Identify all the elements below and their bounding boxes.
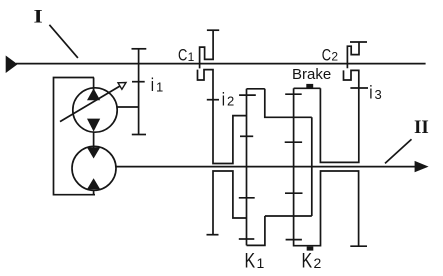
pump-motor connector: [93, 132, 95, 148]
output arrowhead: [415, 161, 429, 172]
motor M circle: [72, 146, 116, 190]
lower-left bracket cap: [207, 234, 219, 236]
svg-text:K: K: [245, 248, 256, 272]
motor bottom stub: [93, 190, 95, 196]
svg-text:i: i: [222, 89, 225, 110]
K2 drum tick c: [285, 192, 303, 194]
motor top flow triangle: [87, 147, 100, 158]
pump top flow triangle: [87, 88, 100, 100]
svg-text:I: I: [34, 6, 43, 27]
clutch C2 top cap: [350, 41, 367, 43]
pump bottom flow triangle: [87, 119, 100, 132]
gear i3 mesh tick: [350, 87, 368, 89]
clutch C2 upper jaw: [347, 42, 359, 68]
gear line G1: [138, 49, 140, 135]
K2 left drum line with bottom cup: [294, 88, 359, 246]
shaft I line: [16, 63, 426, 65]
K1 tick b: [240, 135, 253, 137]
svg-text:1: 1: [188, 50, 195, 64]
svg-text:K: K: [302, 248, 313, 272]
K1 bottom cup: [247, 216, 265, 245]
K1 tick d: [239, 238, 255, 240]
leader line I: [49, 25, 78, 58]
svg-text:2: 2: [227, 94, 234, 109]
variable displacement arrow line: [60, 86, 120, 122]
K1 top bar: [247, 88, 265, 90]
label K1: [245, 248, 265, 272]
K2 drum tick d: [286, 239, 302, 241]
label i2: [222, 89, 234, 110]
clutch C1 lower jaw + gear line i2: [198, 70, 247, 164]
svg-text:II: II: [414, 117, 429, 138]
K2 bottom pad: [307, 247, 314, 251]
K1 tick a: [239, 94, 256, 96]
vertical A link: [311, 117, 313, 216]
clutch C2 lower jaw + gear line i3 + drum U: [320, 70, 358, 162]
K1 sun gear line: [246, 89, 248, 246]
svg-text:i: i: [369, 82, 372, 103]
brake top bar: [294, 87, 321, 89]
pump output link to gear G1: [117, 106, 139, 108]
K2 drum tick a: [285, 93, 302, 95]
label K2: [302, 248, 322, 272]
gear G1 bottom cap: [132, 134, 146, 136]
clutch C1 top cap: [207, 29, 219, 31]
variable displacement arrow head: [118, 83, 126, 90]
leader line II: [385, 139, 412, 163]
K1 tick c: [239, 197, 255, 199]
svg-text:Brake: Brake: [292, 66, 331, 83]
label C2: [322, 46, 339, 65]
hydraulic loop frame: [54, 78, 96, 195]
svg-text:3: 3: [375, 87, 382, 102]
K1 right drop link: [265, 89, 312, 118]
svg-text:i: i: [151, 75, 154, 96]
brake pad: [306, 84, 313, 88]
svg-text:2: 2: [314, 255, 322, 271]
pump P (variable) circle: [73, 88, 117, 132]
lower-left carrier bracket: [213, 171, 247, 235]
gear G1 top cap: [132, 48, 147, 50]
svg-text:2: 2: [331, 50, 338, 64]
svg-text:C: C: [178, 46, 187, 65]
svg-text:1: 1: [156, 80, 163, 95]
K2 drum tick b: [285, 141, 302, 143]
gear G1 mesh tick: [132, 81, 145, 83]
label i1: [151, 75, 163, 96]
shaft II line: [116, 166, 417, 168]
clutch C1 upper jaw: [200, 30, 214, 68]
carrier bar B: [265, 215, 312, 217]
label i3: [369, 82, 381, 103]
K2 right leg cap: [350, 245, 367, 247]
pump top stub: [93, 78, 95, 91]
label C1: [178, 46, 195, 65]
gear i2 mesh tick: [207, 99, 219, 101]
svg-text:1: 1: [257, 255, 265, 271]
motor bottom flow triangle: [87, 178, 100, 189]
svg-text:C: C: [322, 46, 331, 65]
input arrowhead: [6, 56, 18, 74]
